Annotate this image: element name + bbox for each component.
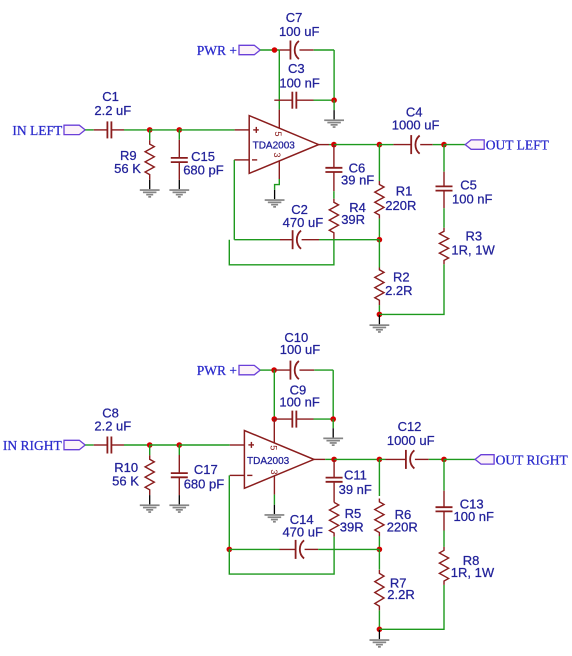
svg-text:100 nF: 100 nF [454,509,495,524]
port PWR + (right channel) [239,365,260,374]
wire C8 to node [124,444,150,446]
ground under C9 [332,428,334,437]
wire C13 node down [443,459,445,490]
op-amp U1 TDA2003 [249,116,318,174]
svg-text:PWR +: PWR + [197,363,237,378]
junction - input feedback corner [227,547,233,553]
U2 - symbol [247,474,252,476]
junction PWR node right [271,367,277,373]
svg-text:2.2R: 2.2R [387,587,414,602]
wire IN LEFT port to C1 [85,129,94,131]
svg-text:470 uF: 470 uF [283,215,324,230]
wire feedback node down to R7 [378,549,380,569]
wire R1 to feedback node [378,219,380,240]
port IN LEFT [64,125,85,134]
capacitor C4 [393,144,411,146]
port IN RIGHT [64,440,85,449]
junction output node R1 [377,142,383,148]
svg-text:100 uF: 100 uF [280,342,321,357]
wire down to ground symbol right [332,419,334,428]
junction input node A right [147,442,153,448]
wire C12 to out node right [429,458,444,460]
resistor R4 [329,199,338,240]
wire right corner down to C9 node [332,370,334,419]
wire ground node to R8 branch [379,585,444,629]
svg-text:C1: C1 [102,89,119,104]
capacitor C8 [94,444,108,446]
svg-text:100 uF: 100 uF [279,24,320,39]
wire right corner down to C3 node [333,50,335,100]
wire pin 3 jog to ground [275,179,280,190]
lead C11 to R5 [333,483,335,503]
svg-text:39 nF: 39 nF [339,482,372,497]
resistor R8 [439,547,448,585]
wire PWR corner down right [273,370,275,419]
wire C5 to R3 [443,208,445,228]
U1 + symbol [253,129,259,131]
pin 3 lead U2 [273,476,275,495]
svg-text:100 nF: 100 nF [452,192,493,207]
wire C9 to ground node right [314,418,334,420]
pin 4 output lead U2 [314,458,325,460]
capacitor C5 [443,172,445,187]
svg-text:100 nF: 100 nF [279,75,320,90]
resistor R7 [375,570,384,611]
svg-text:39R: 39R [340,519,364,534]
wire node down to R10 [149,445,151,455]
junction feedback node right [377,547,383,553]
wire PWR corner down [278,50,280,110]
wire corner to C14 [229,548,279,550]
svg-text:C17: C17 [194,462,218,477]
port PWR + (left channel) [239,45,260,54]
wire node B to op-amp + input [179,129,234,131]
junction C9 ground node [330,416,336,422]
capacitor C15 [178,140,180,158]
wire C2 to feedback node [319,239,379,241]
ground under pin 3 right [273,505,275,514]
wire R6 to feedback node right [378,536,380,549]
svg-text:1000 uF: 1000 uF [392,117,440,132]
ground under R9 [149,180,151,189]
op-amp U2 TDA2003 [244,431,314,489]
capacitor C2 [280,239,293,241]
svg-text:TDA2003: TDA2003 [253,140,296,151]
wire C1 to node [124,129,150,131]
svg-text:C3: C3 [288,61,305,76]
wire IN RIGHT port to C8 [85,444,94,446]
wire feedback loop hook right [229,549,334,574]
wire node B down to C17 [178,445,180,455]
svg-text:39 nF: 39 nF [341,173,374,188]
wire C5 node down [443,145,445,172]
wire ground node to R3 branch [379,264,444,314]
port OUT LEFT [465,140,484,149]
wire output node to R6 node [334,458,379,460]
junction R2 ground node [377,312,383,318]
wire output to node right [325,458,334,460]
U2 + symbol [248,444,254,446]
wire output node to R1 node [334,144,380,146]
wire to C4 [379,144,393,146]
capacitor C14 [280,548,296,550]
pin lead + input U2 [230,444,245,446]
capacitor C1 [94,129,108,131]
wire R2 to ground node [378,305,380,314]
pin lead + input U1 [235,129,250,131]
resistor R2 [375,268,384,306]
svg-text:5: 5 [273,131,283,136]
capacitor C12 [386,458,406,460]
wire feedback loop hook [229,240,334,265]
wire PWR port to corner right [260,369,274,371]
wire - input to corner [233,160,235,240]
ground under R7 [378,630,380,639]
wire C14 to feedback node right [318,548,379,550]
junction out node C5 [441,142,447,148]
wire R7 to ground node right [378,610,380,629]
pin 5 lead U1 [278,110,280,129]
ground under C3 [333,110,335,119]
svg-text:56 K: 56 K [114,161,141,176]
wire C7 to right corner [314,49,334,51]
wire out node to port [444,144,465,146]
svg-text:C5: C5 [460,177,477,192]
capacitor C3 [274,99,292,101]
svg-text:2.2 uF: 2.2 uF [94,103,131,118]
svg-text:680 pF: 680 pF [183,163,224,178]
svg-text:470 uF: 470 uF [282,524,323,539]
svg-text:C12: C12 [398,419,422,434]
svg-text:PWR +: PWR + [197,43,237,58]
capacitor C11 [333,459,335,477]
capacitor C17 [178,455,180,473]
junction input node B [177,127,183,133]
wire R1 node down [378,145,380,181]
wire node A to node B [150,129,180,131]
wire node A down to R9 [149,130,151,140]
junction output node R6 [377,457,383,463]
wire node B to op-amp + input right [179,444,230,446]
junction input node A [147,127,153,133]
resistor R1 [375,181,384,219]
wire to C12 [379,458,385,460]
wire C4 to out node [433,144,444,146]
svg-text:100 nF: 100 nF [279,395,320,410]
svg-text:R3: R3 [466,229,483,244]
svg-text:3: 3 [269,469,279,474]
U1 - symbol [252,159,257,161]
junction PWR node [272,47,278,53]
svg-text:3: 3 [272,152,282,157]
svg-text:56 K: 56 K [112,473,139,488]
svg-text:220R: 220R [387,520,418,535]
wire node to node B right [150,444,180,446]
junction R7 ground node [377,627,383,633]
svg-text:OUT LEFT: OUT LEFT [486,138,550,153]
wire R5 to feedback line right [333,537,335,550]
junction input node B right [177,442,183,448]
junction output node C11 [331,457,337,463]
pin 2 - input lead U2 [230,474,245,476]
wire PWR port to corner [260,49,279,51]
capacitor C7 [279,49,290,51]
pin 4 output lead U1 [319,144,329,146]
svg-text:R1: R1 [396,183,413,198]
wire down to ground symbol [333,100,335,110]
capacitor C9 [274,418,292,420]
svg-text:39R: 39R [341,212,365,227]
svg-text:2.2 uF: 2.2 uF [94,419,131,434]
svg-text:1R, 1W: 1R, 1W [451,243,495,258]
svg-text:1R, 1W: 1R, 1W [451,565,495,580]
svg-text:C7: C7 [286,10,303,25]
wire out node to port right [444,458,475,460]
resistor R6 [375,499,384,537]
svg-text:IN RIGHT: IN RIGHT [3,438,63,453]
pin 5 lead U2 [273,419,275,443]
ground under R2 [378,315,380,324]
svg-text:OUT RIGHT: OUT RIGHT [496,452,569,467]
svg-text:IN LEFT: IN LEFT [12,123,63,138]
wire corner to C2 [234,239,280,241]
wire C3 to ground node [314,99,335,101]
ground under C17 [178,495,180,504]
port OUT RIGHT [475,455,494,464]
wire C10 to right corner [314,369,333,371]
resistor R3 [439,228,448,265]
resistor R10 [145,455,154,495]
wire node B down to C15 [178,130,180,140]
capacitor C13 [443,491,445,508]
svg-text:1000 uF: 1000 uF [387,433,435,448]
wire R6 node down [378,459,380,496]
ground under pin 3 [274,190,276,199]
wire feedback node down to R2 [378,240,380,268]
wire C13 to R8 [443,531,445,547]
wire output to node [329,144,334,146]
capacitor C10 [274,369,290,371]
resistor R5 [330,502,339,536]
svg-text:C11: C11 [344,468,367,483]
pin 2 - input lead U1 [234,159,249,161]
svg-text:TDA2003: TDA2003 [247,456,290,467]
junction feedback node [377,237,383,243]
wire - input to corner right [228,475,230,549]
svg-text:680 pF: 680 pF [184,477,225,492]
wire pin 3 to ground right [273,495,275,505]
svg-text:5: 5 [269,445,279,450]
junction output node C6 [331,142,337,148]
junction out node C13 [441,457,447,463]
svg-text:2.2R: 2.2R [385,283,412,298]
junction C9 left node [272,416,278,422]
ground under R10 [149,495,151,504]
wire C6 to R4 [333,191,335,199]
pin 3 lead U1 [278,161,280,179]
capacitor C6 [333,145,335,168]
junction C3 ground node [331,97,337,103]
svg-text:220R: 220R [385,198,416,213]
resistor R9 [145,140,154,180]
ground under C15 [178,180,180,189]
